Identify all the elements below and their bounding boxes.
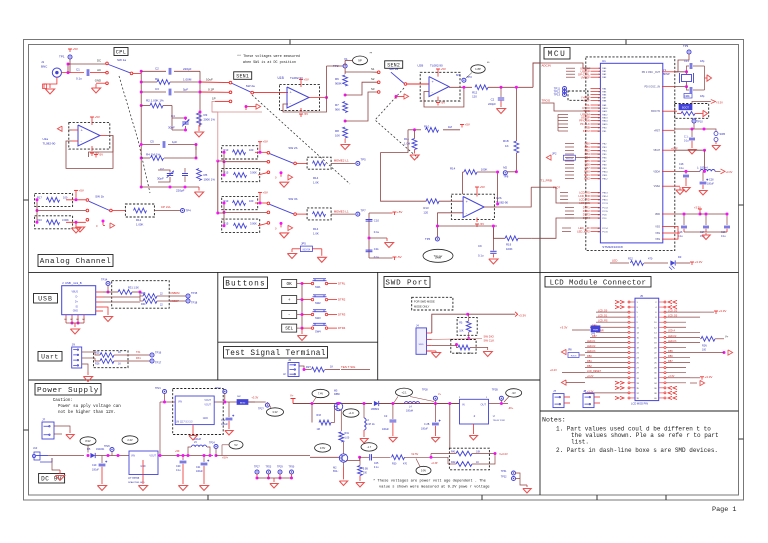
crystal Y1 (682, 75, 692, 82)
switch SW1b contact3 (86, 218, 89, 221)
testpoint TP24 (214, 445, 218, 449)
svg-text:TP22: TP22 (215, 387, 221, 390)
wire D- to box (103, 296, 140, 298)
J7 stubs (564, 396, 570, 398)
svg-text:1N5819: 1N5819 (371, 408, 380, 411)
U1B feedback (283, 98, 327, 113)
svg-text:D3: D3 (678, 255, 682, 259)
MCU left pin 3 DP-CTRL (591, 73, 601, 75)
wire R19 right to section edge (531, 237, 540, 239)
ground nrst cap (691, 141, 693, 148)
divider tap S2 (345, 82, 377, 95)
wire mid tap to buffer (195, 145, 197, 151)
button label box OK (282, 280, 297, 288)
wire to contact3 (258, 173, 267, 175)
ground under flag (75, 227, 84, 232)
svg-text:R25: R25 (95, 352, 100, 355)
section divider horizontal y=272 (29, 271, 739, 273)
MCU left pin 8 Y+REF (591, 97, 601, 99)
wire to contact1 (255, 202, 267, 204)
wire 1P tap (215, 100, 229, 102)
LCD left flag lower (561, 380, 566, 385)
svg-text:DB3: DB3 (585, 152, 591, 156)
svg-text:0.9V: 0.9V (421, 469, 427, 473)
right border tick (739, 438, 744, 440)
wire row C5 (141, 144, 160, 146)
wire Q2 collector (343, 442, 345, 454)
svg-text:Test Signal Terminal: Test Signal Terminal (225, 350, 326, 358)
svg-text:MODE ONLY: MODE ONLY (414, 305, 430, 309)
svg-text:R41: R41 (451, 451, 456, 454)
dashed box gain resistor (307, 157, 331, 169)
svg-text:PC15: PC15 (602, 232, 608, 234)
svg-text:DB7: DB7 (585, 166, 591, 170)
contact3 (267, 171, 270, 174)
resistor R2 (150, 103, 163, 108)
svg-text:not be higher than 12V.: not be higher than 12V. (58, 410, 116, 415)
U2A power flag up (91, 117, 93, 120)
resistor R30 (392, 455, 405, 460)
svg-text:+5V: +5V (441, 67, 446, 71)
MCU left pin 22 DB3 (591, 153, 601, 155)
junction U6 branch (448, 402, 451, 405)
MCU right pin VSS (662, 238, 675, 240)
resistor R15a (233, 201, 246, 206)
svg-text:100K: 100K (481, 167, 488, 171)
svg-text:+0.2V: +0.2V (550, 368, 557, 372)
MCU left pin 20 DB1 (591, 146, 601, 148)
svg-text:S1: S1 (371, 67, 375, 71)
junction dot TP1 branch (67, 63, 70, 66)
svg-text:PF-DSW: PF-DSW (579, 119, 590, 123)
section divider vertical x=218 (217, 272, 219, 380)
svg-text:SW3: SW3 (315, 316, 321, 320)
svg-text:when SW1 is at DC position: when SW1 is at DC position (243, 60, 296, 65)
wire TP9 down (675, 54, 689, 72)
LCD pin row 8 left (630, 336, 635, 338)
LCD pin row 6 right (659, 326, 664, 328)
ground VSS (678, 232, 680, 234)
switch SW 3b blade (270, 204, 294, 214)
svg-text:LCD_D0: LCD_D0 (598, 310, 608, 313)
LCD right wire DB6 (666, 357, 690, 359)
svg-text:100uF: 100uF (221, 423, 228, 426)
svg-text:Level: Level (435, 256, 442, 260)
LCD right resistor (701, 336, 715, 341)
svg-text:GND: GND (95, 79, 101, 83)
oval 5V (229, 441, 243, 449)
MCU right pin VSSA (662, 185, 675, 187)
svg-text:VOUT: VOUT (204, 399, 211, 402)
wire SW1b to R12 box (112, 210, 125, 212)
swd gnd wire (427, 350, 437, 352)
wire r41 in (430, 454, 432, 458)
svg-text:1.0K: 1.0K (313, 231, 319, 235)
svg-text:U:: U: (493, 415, 496, 418)
junction R11 (413, 128, 416, 131)
svg-text:MEME2 L1: MEME2 L1 (334, 159, 349, 163)
LCD left wire generic (590, 326, 628, 328)
ground caps (705, 233, 707, 235)
wire TP24 (215, 448, 217, 455)
svg-text:R3:: R3: (459, 322, 463, 325)
svg-text:BM1: BM1 (584, 173, 590, 177)
svg-text:R6: R6 (335, 77, 339, 81)
net bus right side (195, 145, 197, 159)
ground SW1b (75, 222, 77, 226)
LCD right wire generic (666, 346, 686, 348)
op-amp U1A (429, 77, 449, 97)
wire Q2 base (310, 456, 339, 458)
svg-text:BOOT: BOOT (682, 107, 689, 110)
BOOT ground right (703, 110, 708, 116)
junction dot divider1 (344, 94, 347, 97)
LCD left nc arrow (620, 300, 624, 303)
LCD right wire DB7 (666, 362, 690, 364)
left bus connect groups (218, 160, 224, 162)
svg-text:1M: 1M (317, 428, 320, 431)
svg-text:90K: 90K (335, 108, 340, 112)
MCU left pin 39 LED_WR2 (591, 231, 601, 233)
svg-text:AC: AC (97, 68, 101, 72)
uart gnd wire (82, 364, 88, 372)
svg-text:VOUT: VOUT (149, 455, 156, 458)
svg-text:100K: 100K (506, 247, 513, 251)
svg-text:100: 100 (249, 199, 254, 203)
LCD left wire LCD_D0 (596, 311, 628, 313)
svg-text:FOR SWD MODE: FOR SWD MODE (414, 300, 435, 304)
dashed box R10 left (35, 216, 73, 229)
oval 1.9V (343, 409, 359, 417)
LCD left wire DB1 (585, 362, 628, 364)
wire U1A minus (424, 87, 464, 107)
svg-text:** These voltages were measure: ** These voltages were measured (237, 54, 300, 59)
LCD left nc arrow (620, 396, 624, 399)
svg-text:TP23: TP23 (266, 466, 272, 469)
ground at CPL switch (95, 84, 97, 88)
wire nrst to button (713, 129, 716, 132)
USB pin stubs (96, 291, 103, 293)
svg-text:+1.9: +1.9 (348, 411, 354, 415)
MCU right pin VDD1 (662, 213, 675, 215)
svg-text:TP15: TP15 (191, 291, 198, 295)
wire D1 out rail (379, 403, 460, 405)
LCD right wire LED-K3 (666, 341, 700, 343)
svg-text:J8: J8 (583, 389, 587, 393)
svg-text:LED-K3: LED-K3 (668, 340, 677, 343)
capacitor C14 nrst (689, 137, 695, 139)
uart connector J9 (72, 347, 82, 368)
jack wires (48, 455, 84, 457)
label box DC 9V (39, 474, 65, 484)
GND contact stub (96, 82, 106, 84)
MCU right pin VDD3 (662, 232, 675, 234)
MCU chip body U1 (600, 63, 662, 243)
svg-text:100K 1%: 100K 1% (204, 178, 216, 182)
svg-text:30pF: 30pF (168, 126, 175, 130)
svg-text:900K: 900K (335, 82, 342, 86)
oval -9B (506, 389, 522, 397)
svg-text:10K: 10K (476, 451, 481, 454)
wire VSSA gnd (675, 185, 680, 187)
svg-text:TROG: TROG (542, 99, 551, 103)
LCD pin row 7 left (630, 331, 635, 333)
MCU left pin 17 USB (591, 127, 601, 129)
ground for BNC (45, 89, 54, 94)
wire to TP (331, 213, 355, 215)
resistor R5 (197, 169, 202, 181)
resistor R15b (234, 223, 247, 228)
wire oval 2.1 ticks (394, 397, 398, 403)
wire to contact3 (258, 223, 267, 225)
testpoint TP2 (343, 64, 347, 68)
right bus of attenuator (199, 71, 201, 126)
MCU left pin 34 DTR1 (591, 207, 601, 209)
svg-text:ADCIN: ADCIN (542, 64, 551, 68)
U3 out wire (214, 401, 255, 403)
wire to DC contact (68, 63, 106, 65)
svg-text:1K: 1K (468, 352, 471, 355)
flag ground sen2 (404, 94, 409, 99)
svg-text:1.00: 1.00 (345, 437, 350, 440)
section label Test Signal Terminal (224, 347, 328, 359)
LCD pin row 12 left (630, 357, 635, 359)
LCD left wire LED-K1 (585, 341, 628, 343)
svg-text:10K: 10K (456, 352, 461, 355)
BOOT blue box (679, 104, 692, 110)
oval -1.7 (361, 443, 377, 451)
svg-text:Power su pply voltage can: Power su pply voltage can (58, 404, 121, 409)
svg-text:1.8P: 1.8P (475, 67, 481, 71)
junction r4142 (494, 452, 497, 455)
svg-text:SW 2a: SW 2a (246, 84, 255, 88)
MCU left pin 37 DTR4 (591, 217, 601, 219)
svg-text:DB1: DB1 (587, 360, 592, 363)
svg-text:V+: V+ (725, 335, 729, 339)
svg-text:R31 1.5K: R31 1.5K (128, 286, 139, 290)
svg-text:TP2?: TP2? (258, 408, 264, 411)
LCD left wire LED-K2 (585, 346, 628, 348)
svg-text:+5V: +5V (263, 190, 268, 194)
resistor R1 (157, 80, 170, 85)
JP5 right wire (312, 248, 321, 250)
wire down to R33 (311, 404, 313, 423)
cap C18 (724, 225, 730, 227)
LCD pin row 18 left (630, 387, 635, 389)
svg-text:+5V: +5V (79, 188, 84, 192)
MCU left pin 18 KEY2 (591, 130, 601, 132)
svg-text:Power Supply: Power Supply (37, 387, 99, 395)
testpoint TP18 (186, 299, 190, 303)
svg-text:+5V+: +5V+ (222, 456, 229, 460)
U6 out wire (489, 403, 509, 405)
LCD right nc arrow (668, 391, 672, 394)
MCU left pin 33 LCD_CS (591, 202, 601, 204)
svg-text:LCD_D1: LCD_D1 (598, 315, 608, 318)
svg-text:R12: R12 (136, 218, 142, 222)
testpoint TP14 (106, 282, 110, 286)
MCU left pin 24 DB5 (591, 160, 601, 162)
capacitor C19 pol (99, 463, 106, 465)
section label Analog Channel (38, 255, 113, 267)
svg-text:470: 470 (403, 463, 408, 466)
junction dot right bus (199, 81, 202, 84)
svg-text:100: 100 (702, 349, 707, 352)
dashed box R41 R42 (449, 448, 489, 470)
capacitor C15 (689, 87, 691, 93)
svg-text:OUT: OUT (481, 403, 487, 407)
svg-text:Buttons: Buttons (225, 281, 265, 289)
wire R18 down to opamp row (515, 153, 517, 172)
switch SW2a blade (232, 83, 251, 92)
capacitor C20 (180, 460, 187, 462)
svg-text:C9: C9 (478, 244, 482, 248)
label box SEN1 (234, 72, 252, 80)
wire swd r23 top (468, 314, 470, 321)
capacitor C1 (86, 69, 88, 76)
junction cap node (500, 86, 503, 89)
switch SW 2b common (294, 162, 297, 165)
svg-text:LM 1117-3.3 3.3: LM 1117-3.3 3.3 (176, 422, 193, 424)
MCU left pin 2 USBDP (591, 70, 601, 72)
LCD right wire LED-A (666, 331, 700, 333)
dashed box R15 top (222, 196, 258, 209)
testpoint TP5 (356, 161, 360, 165)
svg-text:470: 470 (648, 257, 653, 261)
bottom border tick (207, 495, 209, 500)
button label box + (282, 296, 297, 304)
svg-text:VBUS: VBUS (71, 291, 78, 294)
svg-text:BNC: BNC (41, 65, 48, 69)
junction swd dio (467, 337, 470, 340)
svg-text:C18: C18 (679, 163, 684, 166)
svg-text:3.3V: 3.3V (272, 410, 278, 414)
svg-text:BM0: BM0 (584, 170, 590, 174)
trimmer C7 (167, 173, 173, 175)
J8 stubs (594, 396, 600, 398)
svg-text:TP29: TP29 (277, 466, 283, 469)
svg-text:1K: 1K (118, 363, 121, 366)
svg-text:C19: C19 (92, 464, 97, 467)
MCU left pin 11 CTRO (591, 107, 601, 109)
op-amp U2A dashed box (69, 123, 110, 150)
svg-text:TP10: TP10 (697, 120, 704, 124)
oval 7.4V (312, 389, 329, 397)
feedback resistor R9 row (408, 129, 421, 131)
U2A feedback upper wire (89, 136, 114, 158)
LCD pin row 17 right (659, 382, 664, 384)
svg-text:PA12: PA12 (602, 114, 608, 117)
svg-text:TP18: TP18 (191, 301, 198, 305)
svg-text:LED-K1: LED-K1 (587, 340, 596, 343)
LCD pin row 20 right (659, 397, 664, 399)
dashed box R12 (125, 204, 154, 217)
U1B power up (300, 80, 302, 83)
svg-text:C13: C13 (684, 59, 689, 63)
testpoint TP16 (150, 353, 154, 357)
svg-text:TP17: TP17 (155, 361, 162, 365)
svg-text:JP5: JP5 (301, 242, 306, 246)
svg-text:LED-K2: LED-K2 (668, 335, 677, 338)
flag+ground below switch (280, 173, 282, 177)
inner border frame (29, 45, 739, 496)
svg-text:0.1u: 0.1u (684, 140, 689, 143)
svg-text:PA10: PA10 (602, 107, 608, 110)
svg-text:220pF: 220pF (183, 67, 192, 71)
section label LCD Module Connector (545, 277, 651, 288)
wire button SEL right (328, 327, 337, 329)
wire Q1 collector (338, 402, 340, 403)
svg-text:DB1: DB1 (585, 145, 591, 149)
svg-text:C2:: C2: (384, 415, 388, 418)
switch SW1b contact1 (86, 199, 89, 202)
LCD right nc arrow (668, 300, 672, 303)
svg-text:30pF: 30pF (157, 177, 164, 181)
wire to contact1 (255, 151, 267, 153)
MCU left pin 1 USBDM (591, 67, 601, 69)
svg-text:DTR1: DTR1 (583, 206, 591, 210)
svg-text:VIN: VIN (131, 455, 135, 458)
LCD pin row 11 right (659, 352, 664, 354)
svg-text:PC15: PC15 (602, 211, 608, 213)
U5 out wire (158, 455, 213, 457)
ground divider (344, 139, 346, 144)
LCD pin row 16 right (659, 377, 664, 379)
wire Q2 emitter right (343, 462, 345, 467)
wire row R1 (141, 81, 157, 83)
gain resistor (313, 212, 326, 217)
resistor R6 (343, 75, 348, 86)
LCD pin row 4 right (659, 316, 664, 318)
swd resistor R24 (458, 345, 470, 350)
JP5 left ground (291, 249, 293, 252)
U5 gnd (142, 460, 144, 484)
svg-text:+5V: +5V (95, 115, 100, 119)
svg-text:R8: R8 (335, 129, 339, 133)
MCU left pin 5 TP11 (591, 88, 601, 90)
MCU TP13 dot (563, 93, 567, 97)
testpoint TP22 (223, 390, 227, 394)
svg-text:Analog Channel: Analog Channel (40, 258, 112, 266)
svg-text:VSS: VSS (655, 238, 660, 241)
LCD left wire +0.2V (585, 377, 628, 379)
svg-text:D880: D880 (334, 393, 340, 396)
LCD pin row 10 right (659, 346, 664, 348)
resistor R8 (343, 127, 348, 138)
svg-text:0.1u: 0.1u (478, 253, 484, 257)
svg-text:VIN: VIN (178, 401, 182, 404)
svg-text:JP6: JP6 (591, 333, 596, 336)
svg-text:DTR4: DTR4 (338, 326, 346, 330)
trimmer C4 (182, 121, 188, 123)
inductor L4 on rail (404, 402, 419, 404)
LCD right junction (723, 351, 726, 354)
U2B power up (476, 187, 478, 190)
svg-text:0.1u: 0.1u (374, 230, 380, 234)
svg-text:DB6: DB6 (668, 355, 673, 358)
svg-text:R42: R42 (451, 461, 456, 464)
svg-text:C25: C25 (374, 462, 379, 465)
svg-text:LED_+3F: LED_+3F (578, 226, 590, 230)
resistor R10 in box (47, 220, 60, 225)
svg-text:R22: R22 (628, 257, 633, 261)
ground crystal side (704, 66, 706, 90)
push button SW2 (302, 299, 311, 301)
connector J10 (42, 422, 54, 439)
wire R10 to contact3 (66, 221, 86, 223)
diode D1 (374, 401, 379, 406)
wire to TP (331, 162, 355, 164)
